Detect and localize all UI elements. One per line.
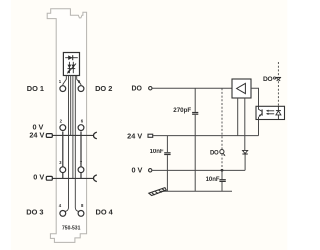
driver output wire — [251, 88, 259, 106]
phototransistor — [258, 106, 262, 119]
status LED box — [63, 53, 79, 76]
terminal 8 — [78, 211, 84, 217]
24V power rail (module) — [52, 134, 93, 136]
0V power jumper plug — [46, 176, 52, 180]
DO input terminal — [149, 87, 152, 90]
svg-text:DO: DO — [132, 86, 143, 93]
24V wire — [153, 135, 259, 137]
driver U1 box — [232, 79, 251, 98]
terminal 3 — [60, 167, 66, 173]
terminal 6 — [78, 125, 84, 131]
status LEDs inside box — [67, 62, 76, 74]
svg-text:DO: DO — [210, 151, 219, 157]
terminal 4 — [60, 211, 66, 217]
wire DO4 to terminal 8 — [75, 76, 79, 212]
terminal 5 — [78, 86, 84, 92]
wire DO3 to terminal 4 — [65, 76, 69, 212]
stub terminal 3 to 0V rail — [62, 173, 64, 179]
svg-text:DO 3: DO 3 — [26, 208, 43, 217]
driver supply leg — [237, 98, 239, 136]
junction dot — [221, 169, 224, 172]
DO wire — [152, 87, 232, 89]
24V clamp contact — [94, 132, 97, 139]
svg-text:10nF: 10nF — [206, 177, 220, 183]
light arrows — [266, 110, 274, 115]
field DO dashed wire — [277, 62, 279, 106]
0V terminal — [149, 169, 152, 172]
module housing outline 750-531 — [47, 9, 86, 243]
svg-text:24 V: 24 V — [127, 131, 142, 140]
stub terminal 7 to 0V rail — [80, 173, 82, 179]
wire 24V to rail — [70, 76, 72, 136]
0V power rail (module) — [52, 177, 93, 179]
wire to terminal 5 — [77, 76, 81, 86]
svg-text:270pF: 270pF — [173, 107, 191, 114]
terminal 2 — [60, 125, 66, 131]
capacitor 10nF (0V to FE) — [221, 170, 223, 179]
field load symbol — [276, 78, 281, 81]
driver triangle — [237, 83, 246, 93]
24V power jumper plug — [46, 134, 52, 138]
24V terminal square — [148, 134, 153, 137]
status lamp symbol — [220, 150, 224, 154]
wire to terminal 1 — [63, 76, 66, 86]
diode D2 — [243, 150, 248, 153]
svg-text:10nF: 10nF — [150, 149, 164, 155]
svg-text:750-531: 750-531 — [62, 226, 81, 232]
svg-text:DO 2: DO 2 — [95, 84, 112, 93]
emitter wire to 24V — [258, 120, 260, 136]
svg-text:0 V: 0 V — [33, 173, 44, 182]
driver leg to diode — [244, 98, 246, 150]
diode D1 inside LED box — [65, 55, 78, 60]
0V clamp contact — [94, 175, 97, 182]
functional earth rail — [161, 190, 232, 192]
status LED branch (dashed) — [221, 88, 223, 169]
optocoupler LED — [276, 106, 281, 119]
wire 0V to rail — [72, 76, 74, 179]
capacitor 270pF — [194, 88, 196, 112]
wire bundle from LED box — [63, 76, 81, 212]
terminal link 6-7 right — [80, 132, 82, 167]
0V wire — [152, 169, 245, 171]
terminal link 2-3 left — [62, 132, 64, 167]
terminal 7 — [78, 167, 84, 173]
svg-text:DO: DO — [263, 76, 272, 83]
functional earth symbol — [149, 188, 167, 196]
optocoupler U2 box — [256, 106, 285, 119]
svg-text:DO 4: DO 4 — [96, 208, 114, 217]
svg-text:24 V: 24 V — [29, 131, 44, 140]
terminal 1 — [60, 86, 66, 92]
field terminal circle — [274, 77, 276, 79]
capacitor 10nF (24V to FE) — [166, 136, 168, 153]
svg-text:DO 1: DO 1 — [27, 84, 44, 93]
svg-text:0 V: 0 V — [131, 166, 142, 175]
